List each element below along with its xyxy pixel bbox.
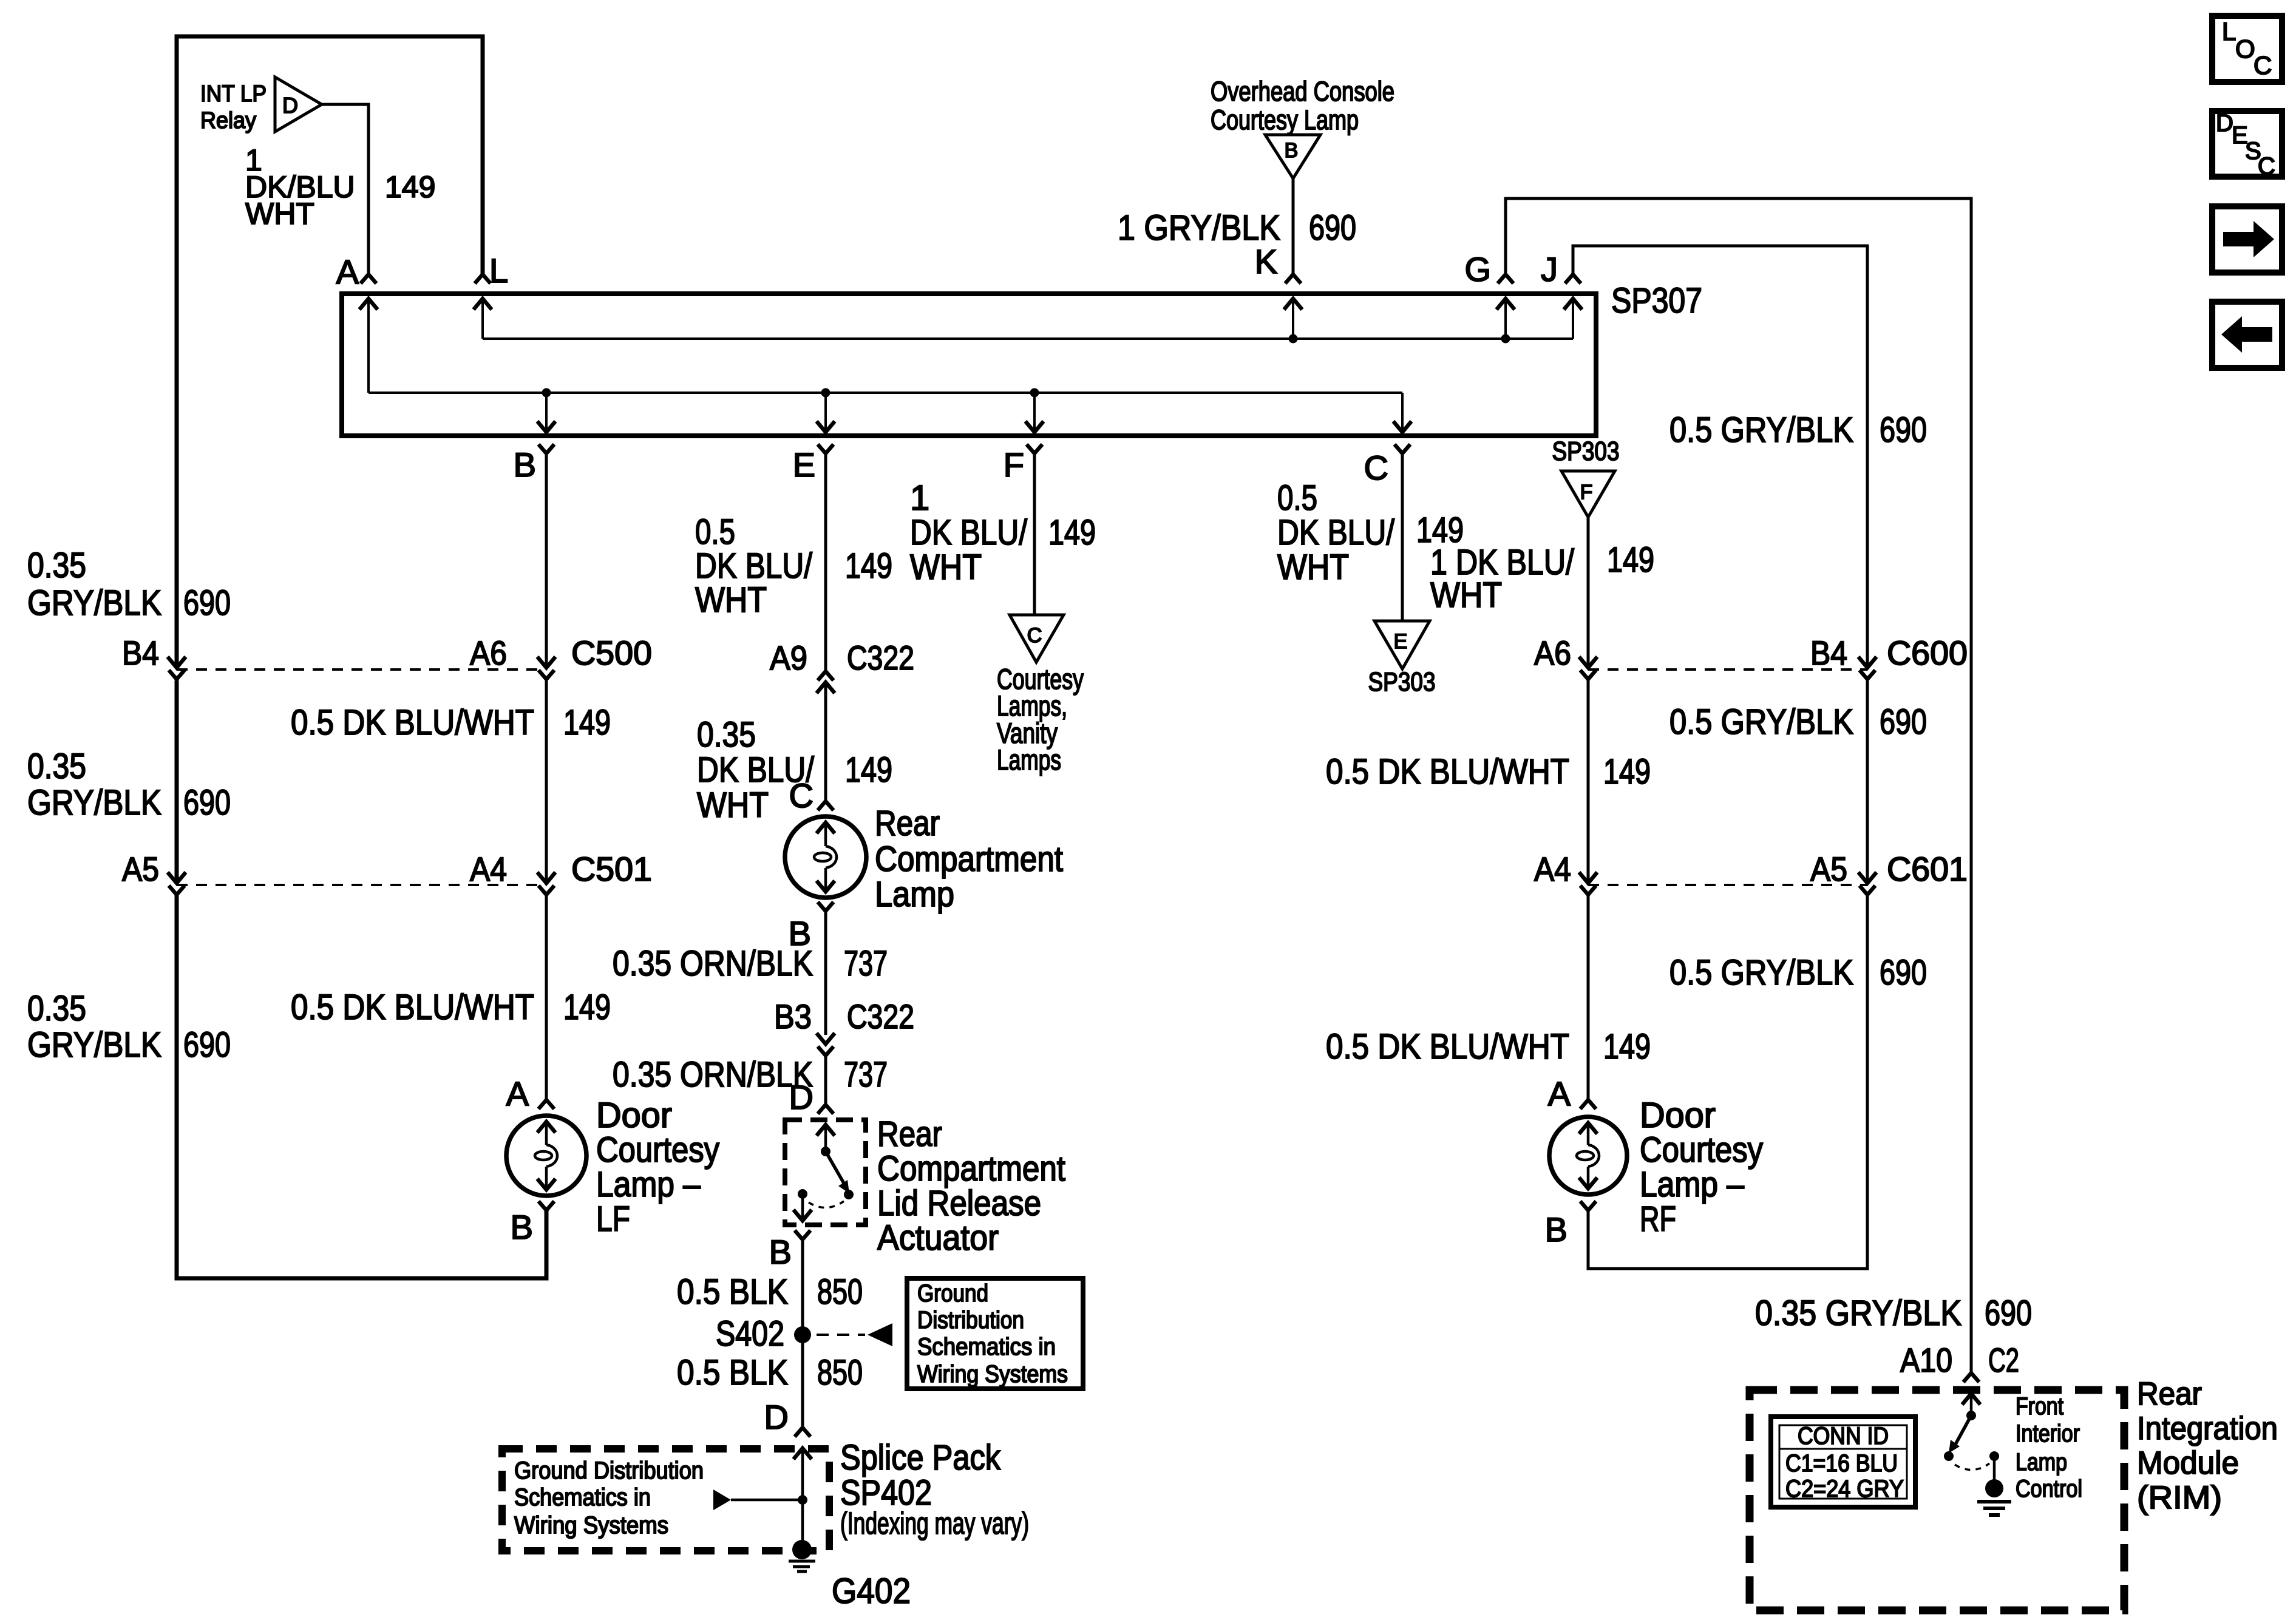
svg-text:D: D [282,93,298,118]
svg-text:Door: Door [596,1096,672,1135]
svg-text:C322: C322 [847,639,914,677]
svg-text:Lamp: Lamp [2016,1449,2067,1476]
svg-text:149: 149 [563,703,611,742]
off-page triangle C: Courtesy Lamps, Vanity Lamps [1010,615,1064,662]
svg-text:149: 149 [385,170,435,204]
svg-text:A9: A9 [770,639,807,677]
svg-text:L: L [489,251,508,290]
splice S402 [794,1326,811,1343]
wire: SP307 C down to triangle E (SP303), 0.5 DK BLU/WHT 149 [1401,453,1404,621]
svg-text:(Indexing may vary): (Indexing may vary) [840,1506,1029,1541]
svg-text:0.35: 0.35 [697,715,756,754]
svg-text:690: 690 [1880,702,1927,742]
svg-text:C601: C601 [1887,850,1968,888]
lamp: Rear Compartment Lamp [785,816,866,898]
svg-text:A: A [336,253,359,291]
lamp: Door Courtesy Lamp RF [1549,1117,1627,1195]
wire: rear lamp B down to C322, 0.35 ORN/BLK 737 [824,911,827,1035]
svg-text:A4: A4 [470,850,507,888]
svg-text:149: 149 [845,750,892,790]
svg-text:Rear: Rear [875,804,940,843]
svg-text:149: 149 [563,988,611,1027]
svg-text:0.5 GRY/BLK: 0.5 GRY/BLK [1669,702,1853,742]
svg-text:Wiring Systems: Wiring Systems [917,1361,1068,1388]
node E (SP307 pin E) [818,444,834,453]
svg-text:J: J [1541,250,1558,288]
svg-text:S402: S402 [716,1314,784,1354]
svg-text:C501: C501 [571,850,652,888]
svg-text:Front: Front [2016,1393,2063,1420]
splice pack internal connection [801,1449,804,1500]
svg-text:B: B [511,1208,533,1246]
svg-text:0.35: 0.35 [27,989,86,1028]
wire: SP307 pin J up and right, 0.5 GRY/BLK 690, down right side [1573,246,1867,668]
relay triangle D (INT LP Relay) [275,77,322,132]
svg-text:Lamps: Lamps [997,744,1061,776]
svg-text:C: C [1027,624,1042,647]
svg-text:C500: C500 [571,634,652,672]
svg-text:SP307: SP307 [1611,281,1702,320]
inline connector C322 (B3) [817,1033,835,1044]
wire: actuator B down to S402, 0.5 BLK 850 [801,1239,804,1335]
svg-text:737: 737 [844,944,888,983]
svg-text:Splice Pack: Splice Pack [840,1438,1001,1477]
svg-text:A6: A6 [470,634,507,672]
svg-text:C2: C2 [1988,1341,2019,1379]
switch: Rear Compartment Lid Release Actuator [785,1120,866,1225]
wire: SP307 pin G up and right, 0.35 GRY/BLK 690, down to RIM [1506,198,1971,1373]
svg-text:690: 690 [1880,953,1927,992]
svg-text:GRY/BLK: GRY/BLK [27,1025,161,1065]
lamp: Door Courtesy Lamp LF [506,1116,586,1196]
nav box DESC [2212,111,2282,177]
svg-text:Lamp –: Lamp – [596,1165,701,1204]
svg-text:149: 149 [1607,540,1654,580]
nav box back arrow [2212,302,2282,368]
svg-text:690: 690 [183,1025,231,1065]
svg-text:WHT: WHT [910,547,982,587]
svg-text:K: K [1255,242,1277,280]
svg-text:C1=16 BLU: C1=16 BLU [1785,1450,1898,1477]
svg-text:0.5 DK BLU/WHT: 0.5 DK BLU/WHT [291,988,534,1027]
wire: C601 down to RF lamp pin A [1587,895,1590,1100]
svg-text:A5: A5 [1810,850,1847,888]
node B (actuator pin B) [795,1230,810,1239]
svg-text:690: 690 [1880,410,1927,450]
svg-text:Interior: Interior [2016,1420,2080,1447]
svg-text:O: O [2235,35,2255,63]
svg-text:Lid Release: Lid Release [877,1184,1041,1223]
svg-text:L: L [2222,17,2236,46]
svg-text:F: F [1004,446,1024,484]
svg-text:E: E [793,446,815,484]
svg-text:D: D [764,1398,789,1436]
svg-text:0.5 DK BLU/WHT: 0.5 DK BLU/WHT [1326,1027,1569,1066]
wire: C322 down to rear compartment lamp, 0.35 DK BLU/WHT 149 [824,682,827,801]
off-page triangle E: SP303 [1374,621,1430,669]
svg-text:0.35 ORN/BLK: 0.35 ORN/BLK [613,1055,813,1094]
nav box LOC [2212,16,2282,82]
svg-text:(RIM): (RIM) [2137,1480,2222,1516]
SP307 internal bus 690: connects L K G J [483,337,1573,340]
svg-text:0.35: 0.35 [27,747,86,786]
svg-text:0.35 GRY/BLK: 0.35 GRY/BLK [1755,1293,1961,1333]
svg-text:C322: C322 [847,997,914,1036]
svg-text:WHT: WHT [1430,575,1502,615]
svg-text:G402: G402 [832,1571,911,1611]
module: Rear Integration Module (RIM) [1750,1390,2124,1610]
inline connector C601 (A4 / A5) [1579,872,1597,883]
SP307 internal bus 149: connects A B E F C [369,392,1402,394]
RIM internal switch: Front Interior Lamp Control [1970,1395,1973,1415]
wire: B between C500 and C501 [545,679,548,883]
RIM internal ground [1993,1456,1996,1482]
svg-text:149: 149 [1603,1027,1651,1066]
svg-text:C2=24 GRY: C2=24 GRY [1785,1476,1904,1502]
svg-text:Distribution: Distribution [917,1307,1024,1334]
node C (SP307 pin C) [1394,444,1410,453]
svg-text:Lamp –: Lamp – [1640,1165,1745,1204]
CONN ID table [1771,1417,1915,1507]
svg-text:Ground: Ground [917,1280,988,1307]
svg-text:Schematics in: Schematics in [514,1484,651,1511]
svg-text:0.5 DK BLU/WHT: 0.5 DK BLU/WHT [291,703,534,742]
svg-text:DK BLU/: DK BLU/ [1277,513,1395,552]
svg-text:B3: B3 [774,997,812,1036]
svg-text:690: 690 [183,783,231,822]
svg-text:A5: A5 [122,850,159,888]
svg-text:G: G [1464,250,1491,288]
wire: relay D to SP307 pin A, 1 DK/BLU WHT 149 [322,104,369,274]
svg-text:C600: C600 [1887,634,1968,672]
svg-text:Wiring Systems: Wiring Systems [514,1512,668,1539]
inline connector C501 (A5 / A4) [537,872,555,883]
callout arrow to ground distribution reference [817,1334,865,1336]
svg-text:Compartment: Compartment [877,1149,1065,1188]
node B (rear lamp pin B) [818,902,834,911]
wire: SP303 F down to C600, 1 DK BLU/WHT 149 [1587,517,1590,668]
svg-text:B4: B4 [122,634,159,672]
svg-text:Integration: Integration [2137,1411,2278,1446]
splice pack SP307 box [342,294,1596,436]
wire: SP307 E down to C322, 0.5 DK BLU/WHT 149 [824,453,827,671]
svg-text:B: B [1285,139,1299,162]
svg-text:0.5 BLK: 0.5 BLK [677,1272,788,1312]
ground G402 [801,1500,804,1550]
svg-text:0.5 GRY/BLK: 0.5 GRY/BLK [1669,410,1853,450]
svg-text:F: F [1580,481,1593,504]
svg-text:0.35 ORN/BLK: 0.35 ORN/BLK [613,944,813,983]
svg-text:C: C [789,776,813,815]
svg-text:0.5 DK BLU/WHT: 0.5 DK BLU/WHT [1326,752,1569,792]
svg-text:A: A [1548,1074,1571,1113]
svg-text:DK BLU/: DK BLU/ [910,513,1028,552]
svg-text:C: C [2258,153,2275,180]
wire: SP307 F down to triangle C, 1 DK BLU/WHT 149 [1033,453,1036,615]
svg-text:RF: RF [1640,1199,1676,1239]
wire: C501 down to LF lamp pin A [545,895,548,1100]
svg-text:149: 149 [845,546,892,586]
node B (SP307 pin B) [538,444,554,453]
nav box forward arrow [2212,206,2282,273]
svg-text:SP303: SP303 [1552,436,1620,466]
wire: SP307 B down to C500, 0.5 DK BLU/WHT 149 [545,453,548,668]
svg-text:LF: LF [596,1199,630,1239]
wire: RF lamp B loop right and up to J riser [1588,895,1867,1269]
svg-text:D: D [2216,110,2233,137]
wire: overhead lamp to SP307 pin K, 1 GRY/BLK 690 [1292,178,1295,274]
svg-text:WHT: WHT [1277,547,1349,587]
inline connector C600 (A6 / B4) [1579,657,1597,668]
node B (RF lamp pin B) [1580,1201,1596,1210]
svg-text:B: B [1545,1210,1567,1249]
svg-text:WHT: WHT [697,785,769,825]
svg-text:Courtesy: Courtesy [596,1130,719,1170]
svg-text:Schematics in: Schematics in [917,1334,1056,1360]
wire: C322 down to actuator pin D, 0.35 ORN/BLK 737 [824,1056,827,1105]
off-page triangle B: overhead console courtesy lamp [1265,135,1320,178]
svg-text:0.5: 0.5 [1277,478,1317,518]
svg-text:0.35: 0.35 [27,546,86,585]
svg-text:Rear: Rear [877,1114,942,1154]
svg-text:Courtesy Lamp: Courtesy Lamp [1211,104,1359,135]
svg-text:Courtesy: Courtesy [1640,1130,1763,1170]
svg-text:WHT: WHT [245,197,314,231]
svg-text:A6: A6 [1534,634,1571,672]
svg-text:SP303: SP303 [1368,667,1436,697]
svg-text:INT LP: INT LP [200,81,267,107]
svg-text:149: 149 [1048,513,1096,552]
svg-text:B: B [769,1233,792,1271]
svg-text:E: E [1394,630,1408,653]
svg-text:Control: Control [2016,1476,2082,1502]
svg-text:A: A [506,1074,529,1113]
splice pack SP402 dashed box (ground distribution reference) [502,1449,829,1551]
svg-text:Module: Module [2137,1445,2239,1481]
inline connector C500 (B4 / A6) [537,657,555,668]
node F (SP307 pin F) [1027,444,1042,453]
svg-text:0.5 GRY/BLK: 0.5 GRY/BLK [1669,953,1853,992]
svg-text:Ground Distribution: Ground Distribution [514,1457,704,1484]
reference box: Ground Distribution Schematics in Wiring Systems [907,1278,1083,1389]
svg-text:Relay: Relay [200,108,256,134]
wire: S402 down to splice pack SP402, 0.5 BLK 850 [801,1335,804,1428]
svg-text:1: 1 [910,478,929,518]
svg-text:Compartment: Compartment [875,839,1063,879]
svg-text:850: 850 [817,1272,863,1312]
wires between C600 and C601 [1587,679,1590,883]
svg-text:GRY/BLK: GRY/BLK [27,783,161,822]
svg-text:Door: Door [1640,1096,1716,1135]
svg-text:B4: B4 [1810,634,1847,672]
svg-text:690: 690 [183,583,231,623]
svg-text:149: 149 [1603,752,1651,792]
svg-text:A4: A4 [1534,850,1571,888]
svg-text:CONN ID: CONN ID [1798,1423,1889,1449]
svg-text:0.5 BLK: 0.5 BLK [677,1353,788,1392]
svg-text:D: D [789,1078,813,1116]
svg-text:690: 690 [1309,208,1356,248]
svg-text:Rear: Rear [2137,1376,2202,1412]
svg-text:C: C [1364,449,1388,487]
svg-text:690: 690 [1985,1293,2032,1333]
wire: SP307 pin L loop, 0.35 GRY/BLK 690, down left side to LF door lamp pin B [177,895,546,1278]
svg-text:WHT: WHT [695,580,767,620]
svg-text:GRY/BLK: GRY/BLK [27,583,161,623]
svg-text:A10: A10 [1900,1341,1952,1379]
svg-text:C: C [2254,51,2272,80]
svg-text:Lamp: Lamp [875,875,954,914]
svg-text:Actuator: Actuator [877,1218,999,1258]
svg-text:850: 850 [817,1353,863,1392]
svg-text:737: 737 [844,1055,888,1094]
inline connector C322 (A9) [818,671,834,680]
svg-text:Overhead Console: Overhead Console [1211,76,1394,107]
svg-text:B: B [514,446,536,484]
